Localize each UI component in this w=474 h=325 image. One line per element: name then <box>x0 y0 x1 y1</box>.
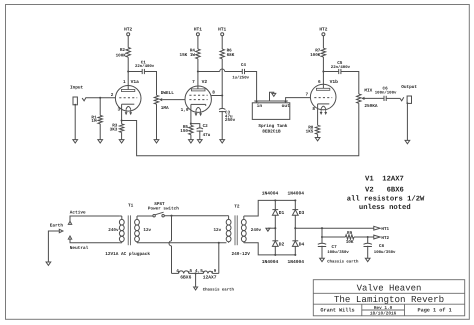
ground R5 <box>189 140 194 143</box>
svg-text:8: 8 <box>312 107 315 112</box>
wire input tip to V1a grid <box>86 97 115 99</box>
diode D2 1N4004 <box>262 228 285 265</box>
svg-text:HT1: HT1 <box>381 227 389 232</box>
wire HT2 to R7 <box>322 36 324 48</box>
svg-text:250v: 250v <box>225 118 236 123</box>
svg-text:Rev 1.0: Rev 1.0 <box>374 306 393 311</box>
wire V2 cathode to junction <box>190 104 192 124</box>
svg-text:Grant Wills: Grant Wills <box>320 308 354 314</box>
svg-text:C8: C8 <box>379 244 385 249</box>
svg-text:D2: D2 <box>279 241 285 247</box>
switch SW1 SPST power switch <box>137 202 179 217</box>
svg-text:V1 12AX7: V1 12AX7 <box>365 176 404 184</box>
wire C1 to DWELL pot top <box>144 72 156 96</box>
transformer T1 12V1A AC plugpack <box>105 203 151 257</box>
wire R7 to V1b plate <box>322 57 324 88</box>
ground spring tank case <box>272 93 276 96</box>
svg-text:100K: 100K <box>310 53 321 58</box>
resistor R8 1K5 <box>306 125 320 137</box>
ground Earth chassis <box>46 262 51 265</box>
terminal HT1 (V2 screen supply) <box>218 28 226 36</box>
svg-text:HT1: HT1 <box>218 28 226 33</box>
spring tank 8EB2C1B <box>252 101 290 135</box>
svg-text:Page 1 of 1: Page 1 of 1 <box>417 308 451 314</box>
svg-text:HT2: HT2 <box>381 236 389 241</box>
svg-text:1N4004: 1N4004 <box>288 190 305 196</box>
wire V1b plate junction to C5 <box>323 71 338 73</box>
svg-text:7: 7 <box>306 92 309 97</box>
svg-text:Active: Active <box>70 209 86 215</box>
ground C8 <box>365 258 370 261</box>
terminal HT2 (V1b supply) <box>319 27 327 36</box>
terminal HT2 (V1a supply) <box>124 27 132 36</box>
resistor R4 15K 1W <box>180 48 201 59</box>
wire HT1 to R6 <box>221 36 223 49</box>
svg-text:1M: 1M <box>91 119 97 124</box>
wire V2 screen grid to R6/C3 node <box>211 94 223 96</box>
svg-text:Output: Output <box>401 85 417 90</box>
wire MIX pot bottom to V1a cathode (feedback bus) <box>122 103 359 156</box>
svg-text:Neutral: Neutral <box>70 245 89 251</box>
svg-text:1K5: 1K5 <box>306 130 314 135</box>
wire Active to T1 primary <box>70 216 120 221</box>
resistor R1 1M <box>91 98 102 140</box>
triode V1a (12AX7 half) pins 1,2,3 <box>111 79 141 115</box>
svg-text:100u/350v: 100u/350v <box>374 250 396 255</box>
svg-text:V1a: V1a <box>131 79 140 85</box>
svg-text:T1: T1 <box>128 203 134 208</box>
svg-text:out: out <box>282 103 291 109</box>
svg-text:100n/100v: 100n/100v <box>375 91 397 96</box>
svg-text:240v: 240v <box>251 228 262 233</box>
wire bridge positive to HT1 arrow <box>294 227 374 229</box>
title block <box>313 280 464 317</box>
svg-text:D3: D3 <box>299 210 305 216</box>
ground C2 <box>197 140 202 143</box>
terminal Active (mains) <box>68 209 86 224</box>
wire Neutral to T1 primary <box>70 239 120 243</box>
svg-text:6: 6 <box>318 80 321 85</box>
svg-text:Earth: Earth <box>50 223 64 229</box>
svg-text:12v: 12v <box>143 228 151 233</box>
resistor R9 10K <box>345 231 354 245</box>
svg-text:1N4004: 1N4004 <box>262 259 279 265</box>
resistor R2 100K <box>116 48 131 59</box>
svg-text:8: 8 <box>212 90 215 95</box>
ground R1 <box>98 140 103 143</box>
svg-text:3K3: 3K3 <box>110 127 118 132</box>
svg-text:3: 3 <box>118 108 121 113</box>
wire MIX wiper to C6 <box>365 97 385 99</box>
svg-text:240-12V: 240-12V <box>232 252 251 257</box>
svg-text:The Lamington Reverb: The Lamington Reverb <box>334 294 444 305</box>
wire C5 to MIX pot top <box>341 72 359 95</box>
heater filament 12AX7 pins 4,5 9 <box>195 269 217 280</box>
svg-text:all resistors 1/2W: all resistors 1/2W <box>347 195 425 204</box>
wire R2 to V1a plate <box>127 57 129 89</box>
ground output jack <box>405 140 410 143</box>
svg-text:12V1A AC plugpack: 12V1A AC plugpack <box>105 251 150 257</box>
svg-text:1N4004: 1N4004 <box>262 190 279 196</box>
wire DWELL pot bottom to ground <box>156 104 158 140</box>
svg-text:250KA: 250KA <box>364 104 378 109</box>
capacitor C6 100n/100v <box>375 87 397 102</box>
wire V1a cathode to junction <box>121 104 123 121</box>
wire R9 to HT2 arrow <box>354 236 374 238</box>
resistor R3 3K3 <box>110 121 124 140</box>
wire bridge bottom rail <box>274 254 296 256</box>
wire T1 secondary bottom to T2 primary <box>137 242 226 244</box>
wire bridge negative to ground <box>268 227 276 229</box>
svg-text:C2: C2 <box>203 124 209 129</box>
svg-text:HT1: HT1 <box>194 28 202 33</box>
ground C7 chassis earth <box>320 258 359 264</box>
capacitor C7 100u/350v <box>318 243 350 258</box>
svg-text:MIX: MIX <box>364 88 372 93</box>
triode V1b (12AX7 half) pins 6,7,8 <box>306 79 339 115</box>
capacitor C5 22n/400v <box>331 61 351 74</box>
potentiometer DWELL 1MA <box>154 91 174 111</box>
wire HT1 node down to C7 <box>321 228 323 243</box>
wire heater centre to chassis <box>195 273 197 287</box>
terminal Earth <box>50 223 64 233</box>
svg-text:100K: 100K <box>116 53 127 58</box>
wire HT2 to R2 <box>127 36 129 48</box>
diode D1 1N4004 <box>262 190 285 228</box>
pentode V2 (6BX6) pins 7,2,8,1,9 <box>181 79 216 116</box>
svg-text:22n/400v: 22n/400v <box>135 64 155 69</box>
svg-text:8EB2C1B: 8EB2C1B <box>262 129 281 134</box>
svg-text:D4: D4 <box>299 241 305 247</box>
svg-text:240v: 240v <box>108 228 119 233</box>
svg-text:2: 2 <box>111 93 114 98</box>
wire heater rail right <box>212 272 219 274</box>
svg-text:6BX6: 6BX6 <box>180 275 191 281</box>
resistor R7 100K <box>310 48 326 58</box>
ground bridge negative <box>266 228 270 231</box>
svg-text:10K: 10K <box>346 240 354 245</box>
terminal HT1 (V2 plate supply) <box>194 28 202 36</box>
wire switch to T2 primary <box>164 215 226 217</box>
diode D4 1N4004 <box>288 228 305 265</box>
resistor R5 150 <box>180 124 193 140</box>
diode D3 1N4004 <box>288 190 305 228</box>
svg-text:V2: V2 <box>202 79 208 85</box>
wire HT2 rail through R9 <box>322 236 345 238</box>
input jack J1 <box>70 85 86 105</box>
svg-text:12AX7: 12AX7 <box>203 275 217 281</box>
svg-text:1,9: 1,9 <box>181 108 189 113</box>
svg-text:1: 1 <box>123 80 126 85</box>
svg-text:DWELL: DWELL <box>161 91 175 96</box>
svg-text:47u: 47u <box>203 133 211 138</box>
svg-text:150: 150 <box>180 129 188 134</box>
svg-text:Spring Tank: Spring Tank <box>258 123 287 129</box>
wire Earth to chassis ground <box>48 231 59 262</box>
terminal arrow HT1 out <box>374 226 390 232</box>
terminal Neutral (mains) <box>68 236 88 251</box>
wire V1a plate junction to C1 <box>128 71 142 73</box>
svg-text:V2 6BX6: V2 6BX6 <box>365 187 404 195</box>
potentiometer MIX 250KA <box>357 88 378 109</box>
ground heater chassis earth <box>194 287 235 292</box>
svg-text:unless noted: unless noted <box>359 203 411 212</box>
wire input jack sleeve to ground <box>74 105 76 140</box>
svg-text:4,5: 4,5 <box>195 269 203 274</box>
wire C6 to output jack tip <box>386 97 400 99</box>
capacitor C2 47u (cathode bypass) <box>191 124 211 140</box>
wire heater supply left drop (hops over bottom lead) <box>169 216 172 274</box>
svg-text:C7: C7 <box>332 245 338 250</box>
wire C4 to spring tank input <box>245 72 257 102</box>
wire V2 plate to C4 (hops over screen wire) <box>198 69 242 72</box>
svg-text:HT2: HT2 <box>319 27 327 33</box>
svg-text:Chassis earth: Chassis earth <box>327 260 359 265</box>
wire bridge top rail <box>274 199 296 201</box>
svg-text:100u/350v: 100u/350v <box>327 250 349 255</box>
heater filament 6BX6 pins 4,5 <box>176 269 192 280</box>
svg-text:1MA: 1MA <box>161 106 169 111</box>
ground R8 <box>315 138 320 141</box>
svg-text:C4: C4 <box>241 63 247 68</box>
wire tank case to ground <box>270 92 274 101</box>
terminal arrow HT2 out <box>374 235 390 241</box>
svg-text:Valve Heaven: Valve Heaven <box>357 283 422 293</box>
svg-text:in: in <box>257 103 263 109</box>
ground C3 <box>220 140 225 143</box>
svg-text:68K: 68K <box>227 53 235 58</box>
svg-text:T2: T2 <box>234 204 240 209</box>
wire output jack sleeve to ground <box>406 103 408 140</box>
svg-text:1N4004: 1N4004 <box>288 259 305 265</box>
capacitor C3 47u/250v <box>219 96 236 140</box>
ground DWELL pot <box>154 140 159 143</box>
svg-text:Chassis earth: Chassis earth <box>203 287 235 292</box>
wire V1b cathode to R8 <box>317 104 319 125</box>
wire tank output to V1b grid <box>286 98 311 101</box>
capacitor C8 100u/350v <box>364 237 397 258</box>
wire HT1 to R4 <box>197 36 199 49</box>
svg-text:1u/250v: 1u/250v <box>232 75 249 80</box>
capacitor C4 1u/250v <box>232 63 249 80</box>
wire heater mid <box>189 272 204 274</box>
wire DWELL wiper to V2 grid <box>162 99 185 101</box>
svg-text:Power switch: Power switch <box>148 205 179 211</box>
svg-text:R2: R2 <box>120 48 126 53</box>
wire heater supply right drop <box>218 243 220 274</box>
wire R6 down to screen node (crosses plate wire) <box>221 59 223 96</box>
capacitor C1 22n/400v <box>135 60 155 74</box>
output jack J2 <box>400 85 418 104</box>
svg-text:V1b: V1b <box>330 79 339 85</box>
wire T2 secondary to bridge <box>244 200 275 255</box>
svg-text:D1: D1 <box>279 210 285 216</box>
ground input jack <box>73 140 78 143</box>
transformer T2 240-12V <box>213 204 261 257</box>
svg-text:7: 7 <box>192 80 195 85</box>
svg-text:Input: Input <box>70 85 84 90</box>
svg-text:18/10/2016: 18/10/2016 <box>370 311 397 317</box>
svg-text:HT2: HT2 <box>124 27 132 33</box>
wire heater rail left <box>172 272 179 274</box>
wire R4 to V2 plate <box>197 59 199 89</box>
svg-text:12v: 12v <box>213 228 221 233</box>
ground R3 <box>119 140 124 143</box>
svg-text:15K 1W: 15K 1W <box>180 53 196 58</box>
note tube types and resistor spec <box>347 176 425 213</box>
resistor R6 68K <box>220 48 235 59</box>
